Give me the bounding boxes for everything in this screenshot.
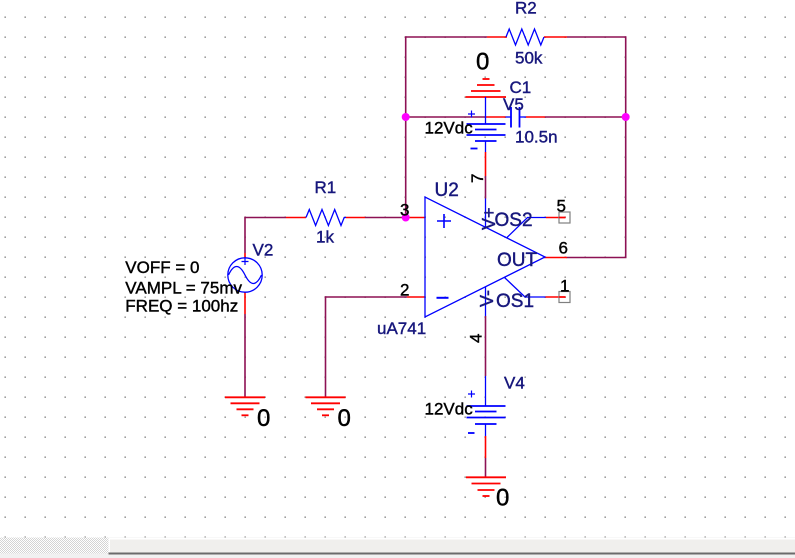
svg-text:2: 2 <box>400 281 409 300</box>
svg-text:OS1: OS1 <box>496 291 534 312</box>
svg-text:3: 3 <box>400 201 409 220</box>
svg-text:VAMPL = 75mv: VAMPL = 75mv <box>125 279 242 298</box>
svg-text:V-: V- <box>477 290 497 307</box>
svg-text:OS2: OS2 <box>495 210 533 231</box>
svg-text:V2: V2 <box>253 241 274 260</box>
svg-text:50k: 50k <box>515 49 543 68</box>
svg-text:R1: R1 <box>315 178 337 197</box>
svg-text:V5: V5 <box>503 95 524 114</box>
svg-text:0: 0 <box>496 485 509 512</box>
svg-text:FREQ = 100hz: FREQ = 100hz <box>125 296 238 315</box>
svg-text:R2: R2 <box>515 0 537 18</box>
svg-text:4: 4 <box>467 334 486 343</box>
svg-text:U2: U2 <box>435 180 459 201</box>
svg-text:0: 0 <box>338 405 351 432</box>
svg-text:7: 7 <box>468 174 487 183</box>
svg-text:0: 0 <box>476 48 489 75</box>
svg-text:1k: 1k <box>316 227 334 246</box>
svg-text:12Vdc: 12Vdc <box>425 119 474 138</box>
svg-text:12Vdc: 12Vdc <box>425 400 474 419</box>
svg-text:uA741: uA741 <box>377 319 426 338</box>
svg-text:VOFF = 0: VOFF = 0 <box>125 258 199 277</box>
svg-text:0: 0 <box>257 405 270 432</box>
svg-text:10.5n: 10.5n <box>515 128 558 147</box>
svg-text:V+: V+ <box>479 207 499 230</box>
svg-text:5: 5 <box>557 197 566 216</box>
svg-text:OUT: OUT <box>497 250 538 271</box>
svg-text:6: 6 <box>559 239 568 258</box>
svg-text:V4: V4 <box>504 374 525 393</box>
svg-text:1: 1 <box>560 277 569 296</box>
